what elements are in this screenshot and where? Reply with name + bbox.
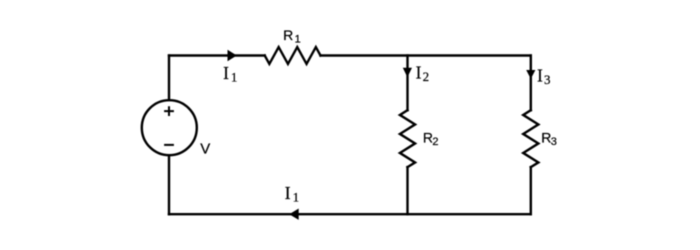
wire top left segment [169,54,265,56]
wire left vertical upper [168,56,170,101]
current arrow I2 (pointing down) [403,68,412,78]
resistor R2 [400,110,415,167]
resistor R3 [523,110,538,167]
svg-text:2: 2 [423,69,430,84]
svg-text:2: 2 [432,136,438,148]
wire bottom segment [169,213,531,215]
svg-text:I: I [537,65,543,85]
svg-text:I: I [285,183,291,203]
svg-text:I: I [416,62,422,82]
wire right branch lower [530,167,532,214]
svg-text:3: 3 [551,136,557,148]
voltage source plus sign [164,106,174,116]
svg-text:I: I [223,63,229,83]
label I3 [537,65,551,87]
wire top right segment [321,54,531,56]
current arrow I1 top (pointing right) [228,50,237,61]
wire middle branch upper [406,56,408,111]
label V [200,140,210,157]
current arrow I3 (pointing down) [526,70,535,79]
svg-text:1: 1 [295,33,301,45]
wire right branch upper [530,56,532,111]
wire left vertical lower [168,155,170,214]
wire middle branch lower [406,167,408,214]
current arrow I1 bottom (pointing left) [289,209,299,220]
voltage source V circle [142,100,197,155]
svg-text:V: V [200,140,210,157]
voltage source minus sign [164,144,174,146]
label R1 [283,27,301,46]
label I1 bottom [285,183,299,205]
label R3 [541,130,557,149]
label R2 [423,130,439,149]
resistor R1 [265,47,321,64]
svg-text:R: R [283,27,293,43]
label I1 top [223,63,237,85]
label I2 [416,62,430,84]
svg-text:1: 1 [231,70,238,85]
svg-text:3: 3 [544,72,551,87]
svg-text:1: 1 [293,190,300,205]
